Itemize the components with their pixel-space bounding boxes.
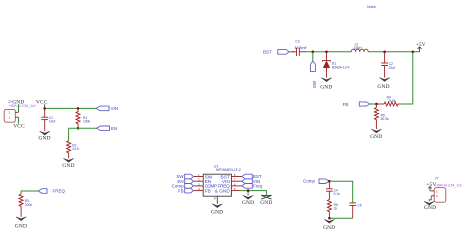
- svg-text:GND: GND: [15, 223, 27, 229]
- svg-text:FREQ: FREQ: [53, 189, 66, 194]
- net flag SW (vertical): [310, 52, 317, 88]
- power flag +5V: [416, 42, 426, 52]
- ground under C2: [377, 78, 389, 90]
- net flag Comp (U1 left): [172, 184, 194, 189]
- ground under R6: [323, 218, 335, 231]
- svg-text:GND: GND: [424, 205, 436, 211]
- J2 value HDR-M-2.54_1x2: [435, 183, 461, 187]
- svg-text:100k: 100k: [83, 120, 91, 124]
- svg-text:VCC: VCC: [13, 124, 25, 130]
- svg-text:HDR-M-2.54_1x2: HDR-M-2.54_1x2: [435, 183, 461, 187]
- junction at VCC/C1: [43, 107, 46, 110]
- wire BST to C3: [289, 51, 294, 53]
- svg-text:1k: 1k: [334, 207, 338, 211]
- svg-text:Comp: Comp: [303, 179, 316, 184]
- wire J2 pin2 to GND: [429, 196, 431, 202]
- junction R1/R2/EN: [77, 127, 80, 130]
- junction rail/R1: [77, 107, 80, 110]
- svg-text:9: 9: [214, 197, 216, 201]
- net flag VIN: [96, 106, 118, 111]
- junction SW flag: [312, 51, 315, 54]
- U1 pin 5 GND: [215, 187, 241, 194]
- svg-text:blank: blank: [367, 5, 376, 9]
- svg-text:C3: C3: [295, 40, 299, 44]
- resistor R3: [19, 194, 32, 217]
- connector J2 body: [434, 188, 446, 203]
- capacitor C1: [41, 108, 55, 131]
- net flag SW (U1 left): [176, 174, 193, 179]
- junction Comp node: [328, 180, 331, 183]
- wire J1 pin2 to GND label: [18, 104, 20, 112]
- wire C5 bottom to R6 bottom: [329, 217, 352, 219]
- net flag BST (top): [263, 49, 289, 54]
- svg-text:200k: 200k: [25, 203, 33, 207]
- wire J1 pin1 to VCC label: [18, 117, 20, 123]
- svg-text:B340A-13-F: B340A-13-F: [332, 66, 350, 70]
- svg-text:C5: C5: [357, 204, 361, 208]
- svg-text:EN: EN: [111, 126, 117, 131]
- capacitor C3: [292, 40, 307, 56]
- U1 pin 6 FREQ: [218, 182, 242, 189]
- svg-text:210k: 210k: [388, 99, 396, 103]
- resistor R2: [67, 141, 79, 159]
- J1 value HDR-M-2.54_1x2: [9, 104, 35, 108]
- U1 pin 1 SW: [194, 173, 213, 180]
- junction FB/R4/R5: [375, 103, 378, 106]
- ground under pin5: [242, 195, 254, 206]
- op-amp U1 designator: [214, 165, 241, 172]
- connector J1: [4, 109, 15, 122]
- diode D1 schottky: [323, 52, 350, 78]
- svg-text:100nf: 100nf: [294, 46, 306, 50]
- wire D1 node to L2: [327, 51, 352, 53]
- svg-text:Freq: Freq: [253, 184, 263, 189]
- node VCC (main rail net flag): [36, 99, 48, 108]
- node VCC (J1 pin1 net label): [13, 124, 25, 130]
- net flag Comp (network): [303, 179, 329, 184]
- svg-text:GND: GND: [211, 209, 223, 215]
- wire C3 to SW node: [305, 51, 327, 53]
- wire output down to R4: [399, 52, 413, 104]
- svg-text:GND: GND: [242, 200, 254, 206]
- net flag Freq (U1 right): [242, 184, 263, 189]
- U1 pin 9 pad: [214, 196, 218, 204]
- svg-text:GND: GND: [370, 134, 382, 140]
- wire L2 to +5V: [368, 51, 419, 53]
- wire FREQ to R3: [21, 191, 38, 194]
- svg-text:GND: GND: [320, 84, 332, 90]
- wire VCC rail: [45, 107, 96, 109]
- wire EN row: [69, 128, 97, 140]
- wire Comp to C5 branch: [329, 181, 352, 203]
- wire J2 pin1 to +5V: [430, 190, 431, 192]
- svg-text:GND: GND: [377, 84, 389, 90]
- U1 pin 7 VIN: [222, 178, 242, 185]
- U1 pin 8 BST: [221, 173, 242, 180]
- junction pin5 gnd: [247, 189, 250, 192]
- U1 pin 2 EN: [194, 178, 212, 185]
- svg-text:GND: GND: [38, 136, 50, 142]
- ground under J2: [424, 201, 436, 211]
- net flag FB (U1 left): [178, 188, 194, 193]
- J2 pin 1: [431, 189, 438, 193]
- svg-text:HDR-M-2.54_1x2: HDR-M-2.54_1x2: [9, 104, 35, 108]
- ground pad (crossed): [260, 195, 272, 206]
- svg-text:GND: GND: [62, 163, 74, 169]
- J2 pin 2: [431, 194, 438, 198]
- junction C2: [383, 51, 386, 54]
- ground under R2: [62, 158, 74, 169]
- power flag +5V (J2): [426, 182, 436, 191]
- svg-text:FB: FB: [178, 188, 184, 193]
- node GND (J1 pin2 net label): [12, 100, 24, 106]
- svg-text:MP1584EN-LF-Z: MP1584EN-LF-Z: [216, 168, 241, 172]
- capacitor C2: [381, 52, 395, 78]
- capacitor C5: [349, 203, 361, 218]
- svg-text:22uf: 22uf: [389, 66, 396, 70]
- svg-text:10uf: 10uf: [49, 120, 56, 124]
- ground under R5: [370, 129, 382, 140]
- net flag FREQ: [38, 189, 66, 194]
- connector J2 designator: [435, 176, 439, 180]
- svg-text:FB: FB: [205, 188, 211, 194]
- svg-text:VCC: VCC: [36, 99, 48, 105]
- wire pin5 to grounds: [241, 191, 267, 196]
- junction D1: [325, 51, 328, 54]
- svg-text:GND: GND: [323, 225, 335, 231]
- U1 pin 4 FB: [194, 187, 211, 194]
- svg-text:0.1u: 0.1u: [334, 192, 341, 196]
- net flag EN (U1 left): [177, 179, 193, 184]
- ground under C1: [38, 131, 50, 141]
- svg-text:J?: J?: [435, 176, 439, 180]
- svg-text:VIN: VIN: [111, 106, 119, 111]
- svg-text:+5V: +5V: [416, 42, 426, 48]
- U1 pin 3 COMP: [194, 182, 217, 189]
- ground under D1: [320, 78, 332, 91]
- net flag BST (U1 right): [242, 174, 262, 179]
- IC U1 body: [203, 174, 231, 196]
- J1 pin 2: [9, 111, 19, 115]
- svg-text:GND: GND: [219, 188, 230, 194]
- inductor L2: [351, 43, 368, 52]
- svg-text:SW: SW: [312, 80, 317, 88]
- svg-text:40.5k: 40.5k: [381, 117, 389, 121]
- svg-text:BST: BST: [263, 50, 272, 55]
- svg-text:24.9: 24.9: [72, 147, 79, 151]
- resistor R5: [374, 104, 389, 129]
- svg-text:FB: FB: [343, 102, 349, 107]
- svg-text:+5V: +5V: [426, 182, 436, 188]
- ground under R3: [15, 217, 27, 230]
- J1 pin 1: [9, 116, 19, 120]
- J1 designator: [8, 99, 13, 104]
- net flag FB (right): [343, 102, 377, 107]
- junction +5V branch down: [412, 51, 415, 54]
- sheet title blank: [367, 5, 376, 9]
- resistor R4: [376, 96, 399, 106]
- net flag EN: [97, 126, 118, 131]
- junction comp gnd: [328, 217, 331, 220]
- ground under U1: [211, 204, 223, 216]
- svg-text:15uH: 15uH: [354, 46, 363, 50]
- resistor R6: [327, 199, 338, 218]
- svg-text:GND: GND: [260, 200, 272, 206]
- net flag VIN (U1 right): [242, 179, 260, 184]
- capacitor C4: [326, 181, 340, 199]
- resistor R1: [76, 108, 91, 128]
